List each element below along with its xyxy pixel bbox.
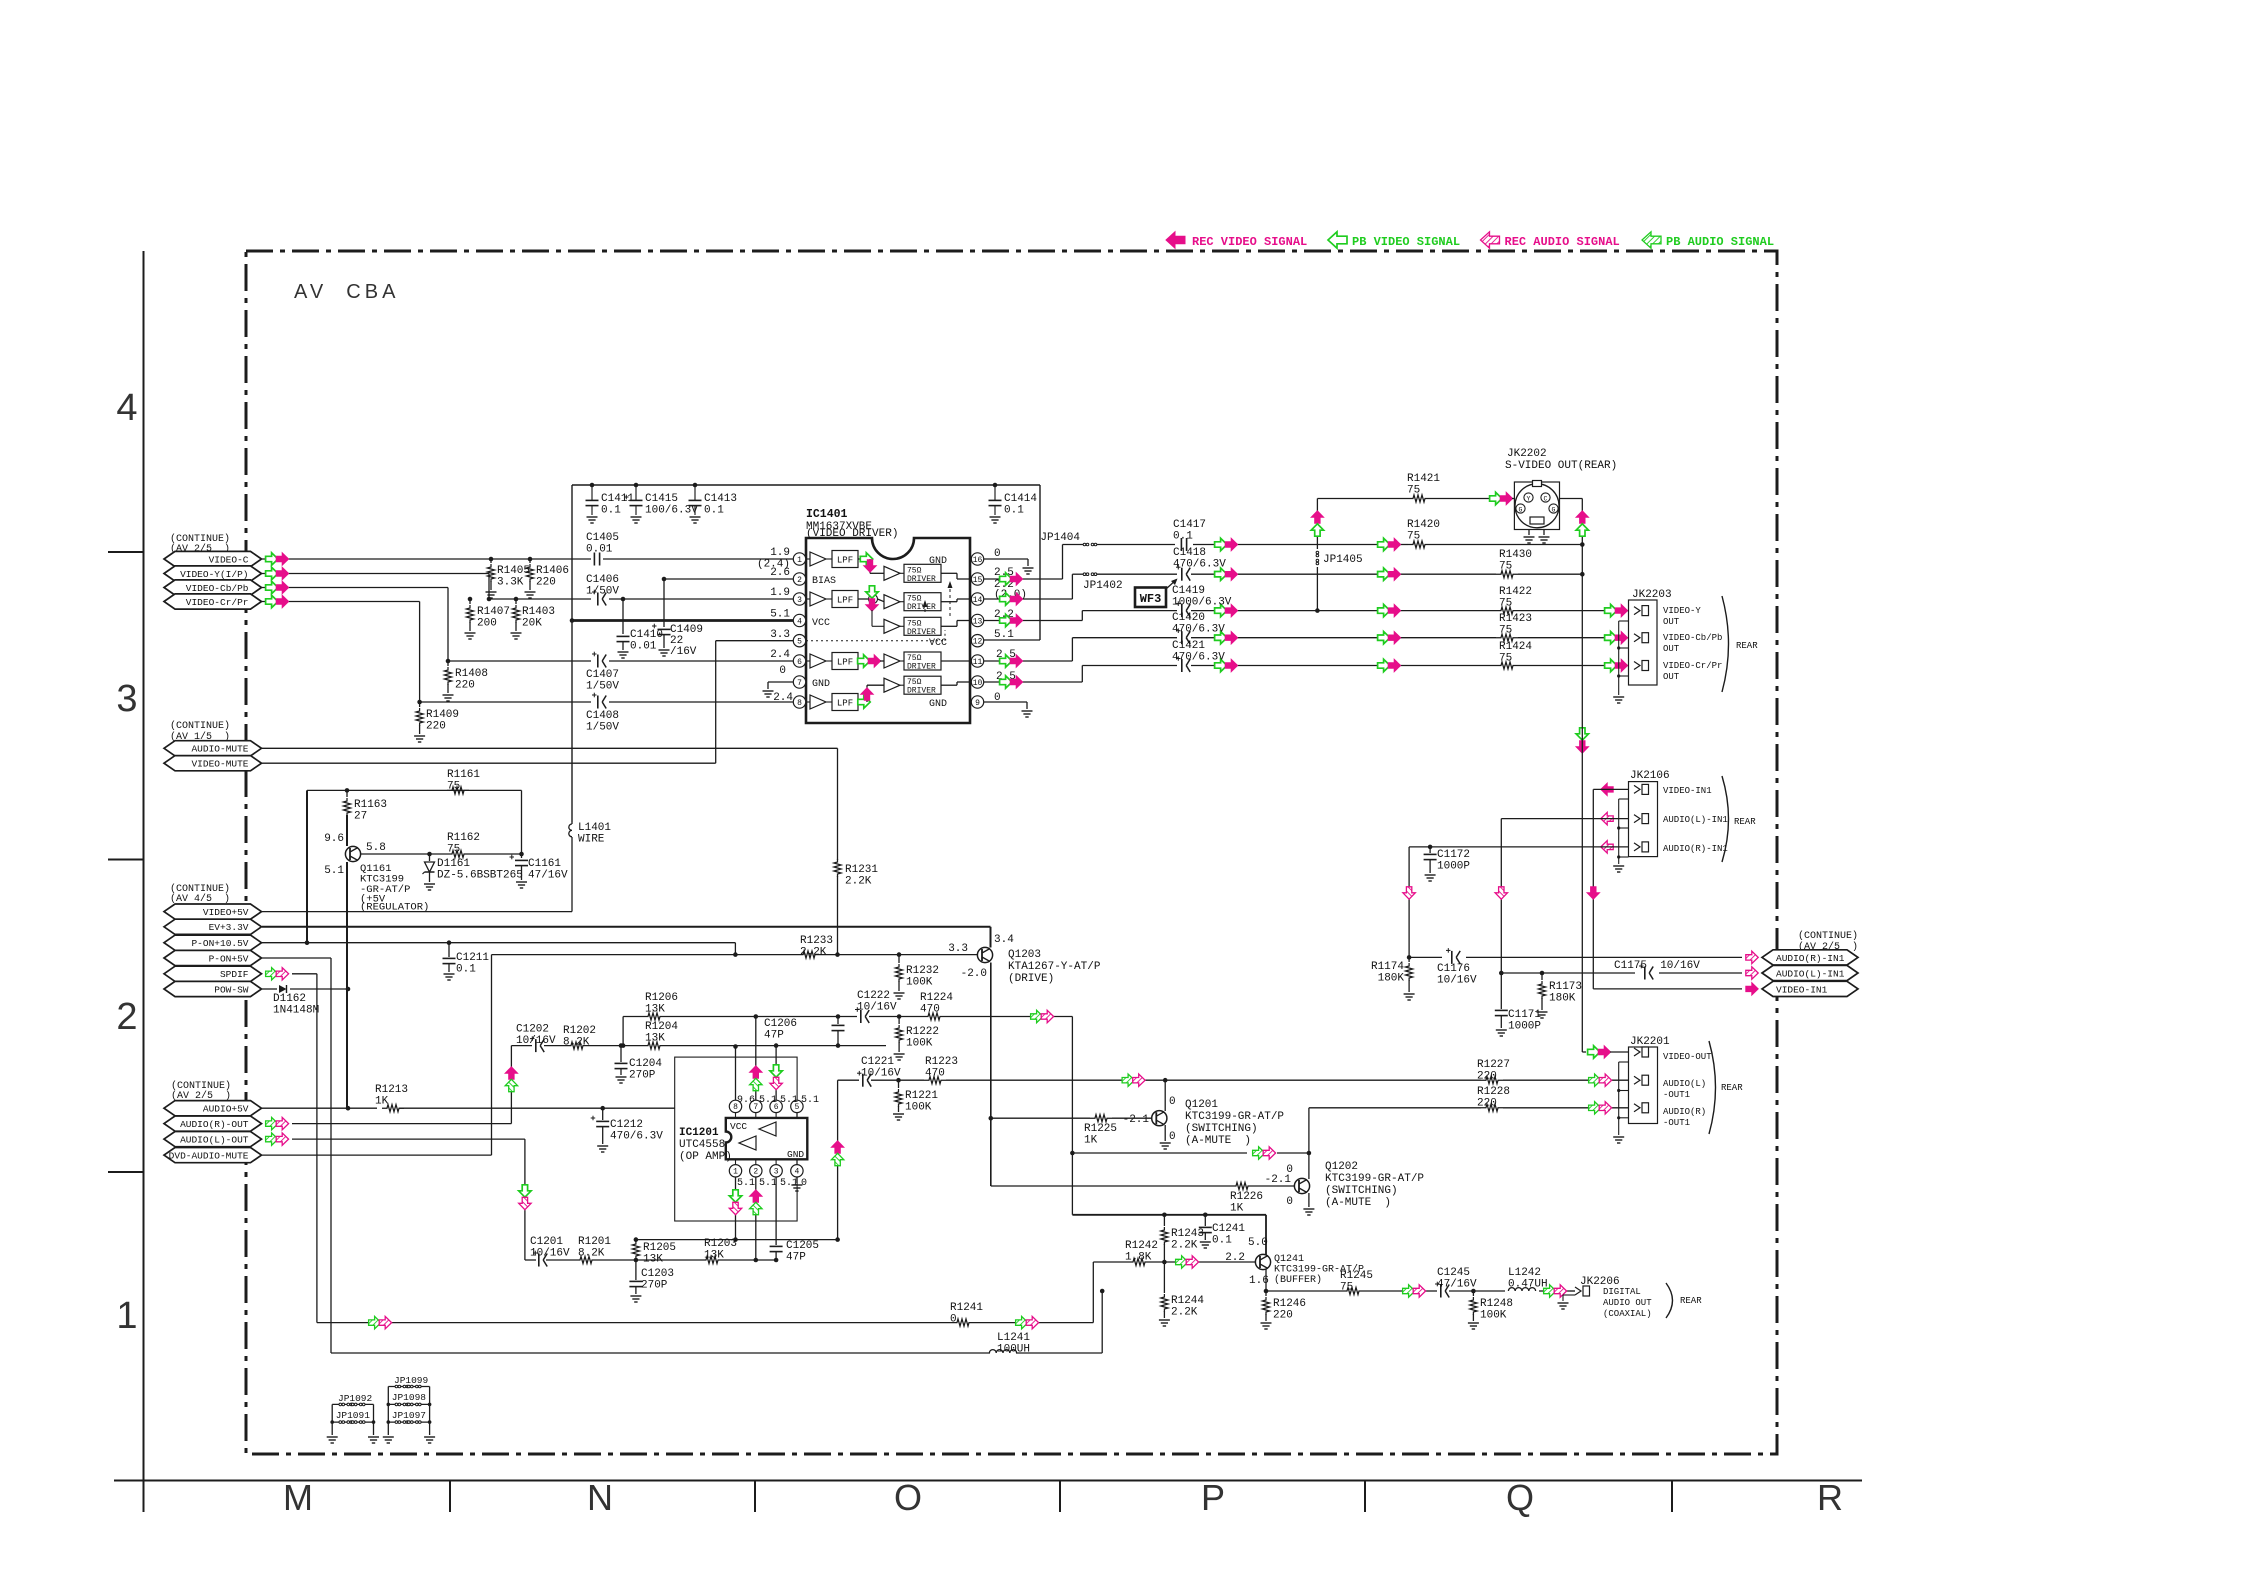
node AUDIO(R)-OUT [164,1116,289,1131]
jumper JP1402 [1083,573,1123,592]
svg-text:5.0: 5.0 [1248,1237,1268,1249]
svg-text:R1221: R1221 [905,1090,938,1102]
svg-text:LPF: LPF [837,658,853,668]
svg-text:/16V: /16V [670,646,697,658]
svg-text:3: 3 [797,596,802,605]
svg-text:2.2K: 2.2K [845,876,872,888]
wire AUDIO-MUTE line [262,748,838,860]
svg-text:0.47UH: 0.47UH [1508,1279,1548,1291]
IC1401 pin7 ground [763,682,794,697]
svg-text:1.8K: 1.8K [1125,1252,1152,1264]
IC1401 ch2 wiring [858,586,884,627]
svg-text:0: 0 [994,548,1001,560]
connector JK2203 [1613,600,1657,703]
svg-text:9.6: 9.6 [324,833,344,845]
svg-text:VIDEO-Cr/Pr: VIDEO-Cr/Pr [1663,661,1722,671]
svg-text:JK2106: JK2106 [1630,770,1670,782]
svg-text:AUDIO(L): AUDIO(L) [1663,1079,1706,1089]
svg-text:LPF: LPF [837,556,853,566]
capacitor C1204 [615,1046,663,1083]
svg-text:2.2K: 2.2K [1171,1240,1198,1252]
svg-text:1K: 1K [1084,1135,1098,1147]
wire pin11 to C1420 line [984,638,1072,668]
svg-text:R1246: R1246 [1273,1298,1306,1310]
frame row label 3 [116,678,137,720]
capacitor C1222 [855,990,897,1023]
resistor R1174 [1371,957,1415,1000]
svg-text:AUDIO(R)-IN1: AUDIO(R)-IN1 [1776,953,1845,964]
wire pin10 to C1421 line [984,666,1082,689]
svg-text:100UH: 100UH [997,1344,1030,1356]
resistor R1224 [920,992,953,1020]
resistor R1163 [343,790,387,846]
svg-text:R1407: R1407 [477,606,510,618]
frame bottom tick [1671,1481,1673,1513]
resistor R1222 [894,1017,939,1061]
frame left tick row 2/3 [108,859,144,861]
svg-text:Q: Q [1506,1477,1534,1518]
svg-text:JP1097: JP1097 [392,1410,426,1421]
capacitor C1161 [510,790,569,888]
capacitor C1415 [624,483,698,523]
svg-text:0: 0 [1169,1131,1176,1143]
svg-text:(DRIVE): (DRIVE) [1008,973,1054,985]
svg-text:R: R [1817,1477,1843,1518]
svg-text:P-ON+10.5V: P-ON+10.5V [191,938,248,949]
resistor R1203 [701,1238,737,1264]
capacitor C1413 [689,483,738,523]
capacitor C1407 [586,652,619,693]
svg-text:R1243: R1243 [1171,1228,1204,1240]
node (CONTINUE)(AV 2/5) top [170,533,230,555]
svg-text:75: 75 [1407,531,1420,543]
IC1401 ref label [806,508,898,540]
svg-text:11: 11 [973,658,983,667]
IC1401 75ohm driver [884,564,941,584]
svg-text:PB AUDIO SIGNAL: PB AUDIO SIGNAL [1666,235,1774,249]
IC1401 input amp [806,653,858,670]
svg-text:13K: 13K [643,1254,663,1266]
svg-text:-2.1: -2.1 [1265,1174,1292,1186]
node (CONTINUE)(AV 2/5) audio [171,1080,231,1102]
svg-text:C1201: C1201 [530,1236,563,1248]
svg-text:R1245: R1245 [1340,1270,1373,1282]
frame bottom tick [754,1481,756,1513]
svg-text:REAR: REAR [1736,641,1758,651]
wire VIDEO-Y line [262,574,793,602]
svg-text:Q1203: Q1203 [1008,949,1041,961]
wire A-MUTE line [1070,1017,1311,1215]
resistor R1243 [1161,1215,1204,1262]
node VIDEO+5V [164,904,262,919]
capacitor C1420 [1172,612,1225,644]
wire JK2202 right vertical [1560,499,1589,754]
svg-text:12: 12 [973,638,983,647]
svg-text:P: P [1201,1477,1225,1518]
svg-text:WIRE: WIRE [578,834,605,846]
capacitor C1201 [530,1236,570,1267]
svg-text:VCC: VCC [812,618,830,629]
svg-text:R1163: R1163 [354,799,387,811]
svg-text:7: 7 [797,679,802,688]
JK2106 labels [1630,770,1756,862]
IC1401 input amp [806,551,858,568]
resistor R1232 [894,955,940,999]
svg-text:REAR: REAR [1680,1296,1702,1306]
svg-text:0.1: 0.1 [456,964,476,976]
wire regulator top rail [307,788,522,793]
svg-text:75: 75 [1340,1282,1353,1294]
IC1401 pin 9 [971,696,983,708]
svg-text:POW-SW: POW-SW [214,984,249,995]
resistor R1206 [643,992,678,1020]
svg-text:0: 0 [1286,1196,1293,1208]
resistor R1221 [893,1080,938,1120]
transistor Q1202 [1265,1164,1310,1208]
node EV+3.3V [164,919,262,934]
jumper JP1404 [1040,532,1096,546]
svg-text:DZ-5.6BSBT265: DZ-5.6BSBT265 [437,870,523,882]
svg-text:(SWITCHING): (SWITCHING) [1185,1123,1258,1135]
IC1201 pin 5 [791,1100,803,1118]
node (CONTINUE)(AV 2/5) right [1798,930,1858,953]
IC1201 surrounding box [675,1057,797,1221]
IC1401 pin4 VCC thick wire [570,618,793,623]
svg-text:75: 75 [1499,653,1512,665]
resistor R1423 [1496,613,1532,641]
wire VIDEO+5V line [262,911,572,913]
svg-text:LPF: LPF [837,596,853,606]
svg-text:470: 470 [920,1004,940,1016]
svg-text:VIDEO-Cb/Pb: VIDEO-Cb/Pb [186,583,249,594]
svg-text:-2.1: -2.1 [1123,1114,1150,1126]
svg-text:75: 75 [1499,598,1512,610]
svg-text:270P: 270P [629,1070,656,1082]
svg-text:KTC3199-GR-AT/P: KTC3199-GR-AT/P [1325,1173,1424,1185]
svg-text:L1401: L1401 [578,822,611,834]
svg-text:C1203: C1203 [641,1268,674,1280]
svg-text:(COAXIAL): (COAXIAL) [1603,1309,1652,1319]
svg-text:R1228: R1228 [1477,1086,1510,1098]
capacitor C1221 [857,1056,901,1087]
svg-text:100K: 100K [906,1038,933,1050]
node (CONTINUE)(AV 4/5) [170,883,230,905]
VCC top rail [572,484,1040,486]
svg-text:R1206: R1206 [645,992,678,1004]
svg-text:G: G [1552,506,1556,513]
svg-text:470/6.3V: 470/6.3V [1172,624,1225,636]
IC1401 pin5 dotted net [806,630,945,641]
svg-text:DRIVER: DRIVER [907,603,936,612]
resistor R1403 [511,599,556,639]
JK2206 labels [1580,1276,1702,1319]
svg-text:R1203: R1203 [704,1238,737,1250]
node AUDIO(L)-IN1 [1762,965,1858,980]
svg-text:GND: GND [812,679,830,690]
capacitor C1205 [770,1240,819,1264]
frame bottom tick [449,1481,451,1513]
transistor Q1241 [1225,1237,1270,1287]
wire VIDEO-MUTE line [262,641,793,764]
svg-text:10/16V: 10/16V [857,1002,897,1014]
IC1401 pin 12 [971,635,983,647]
diode D1162 [273,985,319,1017]
svg-text:VIDEO-OUT: VIDEO-OUT [1663,1052,1712,1062]
svg-text:C1407: C1407 [586,669,619,681]
IC1401 pin16 ground [984,559,1034,574]
node VIDEO-C [164,551,289,566]
svg-text:AUDIO(R): AUDIO(R) [1663,1107,1706,1117]
svg-text:(CONTINUE): (CONTINUE) [170,720,230,732]
svg-text:DIGITAL: DIGITAL [1603,1287,1641,1297]
svg-text:KTC3199-GR-AT/P: KTC3199-GR-AT/P [1185,1111,1284,1123]
svg-text:13K: 13K [645,1004,665,1016]
svg-text:AUDIO(L)-IN1: AUDIO(L)-IN1 [1776,968,1845,979]
svg-text:1K: 1K [375,1096,389,1108]
resistor R1241 [950,1302,983,1326]
svg-text:470/6.3V: 470/6.3V [1172,652,1225,664]
connector JK2201 [1613,1047,1657,1143]
IC1401 pin 8 [793,696,805,708]
svg-text:75: 75 [447,781,460,793]
AV CBA dash-dot border [246,251,1777,1454]
svg-text:3.3: 3.3 [770,629,790,641]
svg-text:0: 0 [950,1314,957,1326]
svg-text:1/50V: 1/50V [586,681,619,693]
wire DVD-AUDIO-MUTE line [262,955,492,1156]
svg-text:JP1092: JP1092 [338,1393,373,1404]
svg-text:L1242: L1242 [1508,1267,1541,1279]
svg-text:VIDEO-MUTE: VIDEO-MUTE [191,759,248,770]
svg-text:R1205: R1205 [643,1242,676,1254]
svg-text:220: 220 [1273,1310,1293,1322]
svg-text:R1222: R1222 [906,1026,939,1038]
svg-text:0: 0 [1169,1096,1176,1108]
svg-text:C1417: C1417 [1173,519,1206,531]
svg-text:BIAS: BIAS [812,576,836,587]
svg-text:C1241: C1241 [1212,1223,1245,1235]
capacitor C1211 [443,943,490,980]
IC1401 pin 16 [971,553,983,565]
wire JK2202 left vertical [1311,499,1323,613]
IC1201 amp2 [739,1136,756,1150]
svg-text:3.3: 3.3 [948,943,968,955]
svg-text:JP1091: JP1091 [336,1410,371,1421]
IC1401 feedback dashed [923,581,953,616]
capacitor C1212 [591,1106,664,1152]
svg-text:JP1402: JP1402 [1083,580,1123,592]
wire AUDIO(R)-OUT line [292,1046,518,1124]
resistor R1204 [643,1021,678,1049]
svg-text:4: 4 [794,1168,799,1177]
svg-text:JP1098: JP1098 [392,1392,427,1403]
capacitor C1411 [586,483,635,523]
svg-text:R1242: R1242 [1125,1240,1158,1252]
svg-text:47/16V: 47/16V [528,870,568,882]
svg-text:Q1241: Q1241 [1274,1254,1304,1265]
svg-text:DRIVER: DRIVER [907,575,936,584]
svg-text:470/6.3V: 470/6.3V [610,1131,663,1143]
svg-text:R1226: R1226 [1230,1191,1263,1203]
wire IC1201 pin7 up [750,1017,762,1101]
JK2203 labels [1632,589,1758,692]
svg-text:C1212: C1212 [610,1119,643,1131]
IC1401 75ohm driver [884,593,941,613]
svg-text:0.1: 0.1 [1173,531,1193,543]
jumper JP1099 label [394,1375,429,1386]
wire AUDIO(L)-IN1 path [1495,819,1758,980]
svg-text:C1421: C1421 [1172,640,1205,652]
resistor R1227 [1477,1059,1510,1084]
wire VIDEO-C line [262,557,793,562]
svg-text:4: 4 [797,617,802,626]
svg-text:REAR: REAR [1721,1083,1743,1093]
svg-text:R1173: R1173 [1549,981,1582,993]
svg-text:C1175 10/16V: C1175 10/16V [1614,960,1700,972]
wire Q1241 top rail [1072,1213,1266,1255]
svg-text:AUDIO-MUTE: AUDIO-MUTE [191,744,248,755]
wire R1233 line [492,952,978,957]
connector JK2106 [1613,782,1657,872]
svg-text:R1405: R1405 [497,565,530,577]
node VIDEO-MUTE [164,756,262,771]
IC1401 right pin voltages [994,548,1027,704]
IC1401 input amp [806,591,858,608]
capacitor C1419 [1172,585,1232,617]
svg-text:REAR: REAR [1734,817,1756,827]
svg-text:R1244: R1244 [1171,1295,1204,1307]
svg-text:JP1099: JP1099 [394,1375,429,1386]
svg-text:OUT: OUT [1663,617,1680,627]
IC1401 pin 4 [793,614,805,626]
svg-text:R1223: R1223 [925,1056,958,1068]
wire pin14 to JP1402 line [984,574,1072,605]
jumper JP1405 [1316,551,1363,566]
svg-text:180K: 180K [1549,993,1576,1005]
svg-text:470/6.3V: 470/6.3V [1173,559,1226,571]
svg-text:R1421: R1421 [1407,473,1440,485]
capacitor C1417 [1173,519,1206,551]
svg-text:AUDIO OUT: AUDIO OUT [1603,1298,1652,1308]
frame column label O [894,1477,922,1518]
svg-text:R1408: R1408 [455,668,488,680]
svg-text:R1227: R1227 [1477,1059,1510,1071]
legend PB AUDIO SIGNAL text [1666,235,1774,249]
svg-text:200: 200 [477,618,497,630]
svg-text:VIDEO+5V: VIDEO+5V [203,907,249,918]
svg-text:5.8: 5.8 [366,842,386,854]
IC1401 pin 7 [793,676,805,688]
svg-text:-OUT1: -OUT1 [1663,1090,1690,1100]
svg-text:OUT: OUT [1663,672,1680,682]
svg-text:5.1: 5.1 [324,865,344,877]
svg-text:(SWITCHING): (SWITCHING) [1325,1185,1398,1197]
svg-text:1.9: 1.9 [770,587,790,599]
svg-text:1: 1 [116,1295,137,1337]
svg-text:(OP AMP): (OP AMP) [679,1151,732,1163]
resistor R1424 [1496,641,1532,669]
capacitor C1206 [764,1017,845,1048]
svg-text:JK2202: JK2202 [1507,448,1547,460]
VCC right rail [1039,485,1041,640]
svg-text:VIDEO-Y: VIDEO-Y [1663,606,1701,616]
wire C1421/R1424 line (VIDEO-Cr OUT) [1082,659,1633,671]
wire P-ON+10.5V line [262,940,735,954]
svg-text:1/50V: 1/50V [586,722,619,734]
wire IC1201 pin8 up [733,1044,738,1100]
svg-text:EV+3.3V: EV+3.3V [209,922,249,933]
svg-text:WF3: WF3 [1140,592,1162,606]
svg-text:75: 75 [447,844,460,856]
node VIDEO-Cb/Pb [164,580,289,595]
IC1201 bottom pin voltages [737,1178,807,1189]
svg-text:1.9: 1.9 [770,547,790,559]
svg-text:REC AUDIO SIGNAL: REC AUDIO SIGNAL [1505,235,1620,249]
svg-text:75: 75 [1499,561,1512,573]
frame row label 2 [116,996,137,1038]
resistor R1420 [1407,519,1440,548]
svg-text:47/16V: 47/16V [1437,1279,1477,1291]
svg-text:2.2: 2.2 [1225,1252,1245,1264]
svg-text:16: 16 [973,556,983,565]
IC1401 75ohm driver [884,617,941,637]
capacitor C1175 [1614,960,1700,980]
Q1202 emitter ground [1303,1193,1314,1215]
IC1401 75ohm driver [884,676,941,696]
resistor R1422 [1496,586,1532,614]
svg-text:1/50V: 1/50V [586,586,619,598]
svg-text:DVD-AUDIO-MUTE: DVD-AUDIO-MUTE [169,1151,249,1162]
frame column label N [587,1477,613,1518]
svg-text:C1419: C1419 [1172,585,1205,597]
op-amp IC1401 body [806,538,970,723]
svg-text:C1161: C1161 [528,858,561,870]
wire digital audio line [1100,1285,1575,1297]
svg-text:75: 75 [1407,485,1420,497]
svg-text:75: 75 [1499,625,1512,637]
svg-text:S-VIDEO OUT(REAR): S-VIDEO OUT(REAR) [1505,460,1617,472]
arrow audio-r-in1 [1601,841,1613,853]
frame column label M [283,1477,313,1518]
wire IC1201 pin3 down [775,1177,777,1245]
IC1401 ch3 wiring [858,655,884,667]
wire C1419/R1422 line (VIDEO-Y OUT) [1082,604,1633,616]
svg-text:(A-MUTE ): (A-MUTE ) [1185,1135,1251,1147]
wire POW-SW line [262,987,350,992]
svg-text:R1213: R1213 [375,1084,408,1096]
jumper JP1092 label [338,1393,373,1404]
svg-text:C1221: C1221 [861,1056,894,1068]
wire AUDIO(L)-OUT line [292,1139,636,1260]
IC1401 internal labels [812,556,947,710]
frame bottom tick [1364,1481,1366,1513]
svg-text:Q1202: Q1202 [1325,1161,1358,1173]
inductor L1241 [989,1332,1030,1356]
wire VIDEO-Cb line [262,588,793,664]
svg-text:R1204: R1204 [645,1021,678,1033]
frame left vertical line [143,251,145,1512]
transistor Q1201 [1123,1096,1176,1143]
svg-text:10/16V: 10/16V [530,1248,570,1260]
Q1201 labels [1185,1099,1284,1147]
svg-text:JK2203: JK2203 [1632,589,1672,601]
IC1201 pin 2 [750,1159,762,1177]
IC1201 pin 6 [770,1100,782,1118]
wire H2 audio line [634,1258,776,1263]
node AUDIO-MUTE [164,741,262,756]
IC1201 amp1 [759,1122,776,1136]
svg-text:27: 27 [354,811,367,823]
